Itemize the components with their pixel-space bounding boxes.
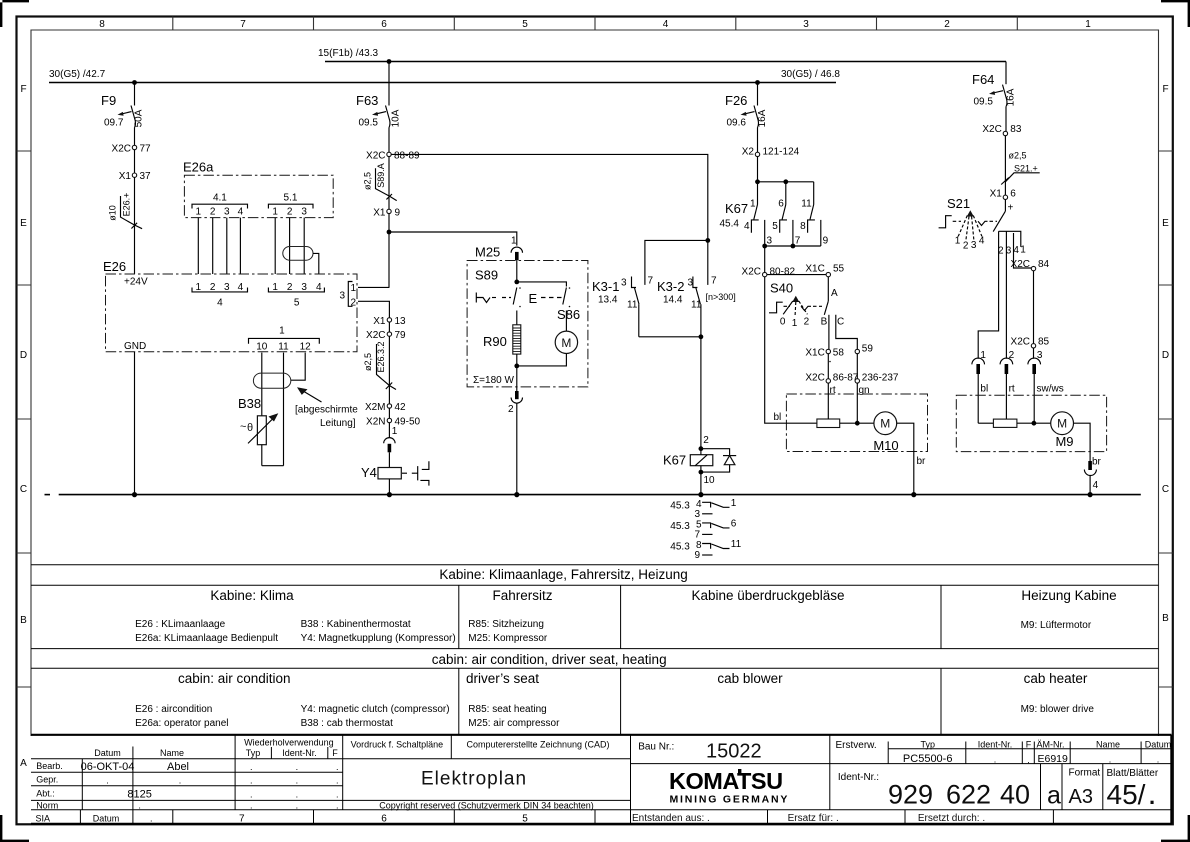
svg-text:8: 8 bbox=[800, 221, 806, 232]
svg-text:85: 85 bbox=[1038, 336, 1050, 347]
svg-text:7: 7 bbox=[648, 276, 654, 287]
wire to E26 +24V bbox=[134, 177, 136, 274]
svg-text:C: C bbox=[20, 484, 27, 495]
terminal X1 6 bbox=[990, 189, 1017, 200]
svg-text:X2C: X2C bbox=[1011, 259, 1030, 270]
svg-text:[n>300]: [n>300] bbox=[706, 292, 736, 302]
wire pin12 bbox=[291, 353, 305, 381]
svg-text:X1: X1 bbox=[990, 189, 1003, 200]
svg-text:X2C: X2C bbox=[742, 267, 761, 278]
svg-text:40: 40 bbox=[1000, 780, 1030, 810]
svg-text:.: . bbox=[994, 755, 997, 765]
node F63 tap bbox=[387, 59, 392, 64]
svg-text:50A: 50A bbox=[134, 109, 145, 127]
M9 pin 2 bbox=[1000, 350, 1015, 419]
wire / nodes contact feeds bbox=[755, 157, 814, 185]
svg-text:rt: rt bbox=[1009, 384, 1015, 395]
svg-text:4: 4 bbox=[217, 298, 223, 309]
svg-text:X2: X2 bbox=[742, 147, 755, 158]
svg-text:6: 6 bbox=[381, 19, 387, 30]
svg-text:Abt.:: Abt.: bbox=[36, 789, 55, 799]
svg-text:K3-2: K3-2 bbox=[657, 279, 684, 294]
TABLES bbox=[31, 565, 1159, 735]
terminal X2C 86-87 bbox=[805, 354, 858, 384]
svg-text:Datum: Datum bbox=[94, 748, 121, 758]
wire bl M10 bbox=[765, 277, 817, 423]
K67 contact cross-ref 8-11 bbox=[670, 539, 741, 561]
svg-text:13.4: 13.4 bbox=[598, 295, 618, 306]
svg-text:09.6: 09.6 bbox=[727, 118, 747, 129]
relay contact K3-2 bbox=[657, 276, 736, 337]
wire bbox=[1033, 271, 1035, 344]
svg-text:A: A bbox=[831, 288, 838, 299]
relay contact K3-1 bbox=[592, 276, 654, 337]
svg-text:F: F bbox=[1026, 739, 1032, 749]
svg-text:Typ: Typ bbox=[920, 739, 935, 749]
svg-text:~: ~ bbox=[240, 421, 246, 433]
terminal X1C 58 bbox=[805, 348, 844, 363]
relay contact K67/1-4 bbox=[720, 182, 773, 247]
svg-text:Ident-Nr.: Ident-Nr. bbox=[282, 748, 317, 758]
svg-text:cab blower: cab blower bbox=[717, 671, 783, 686]
node F26 tap bbox=[755, 80, 760, 85]
wire to X1C 55 bbox=[767, 274, 826, 276]
svg-text:15022: 15022 bbox=[706, 741, 762, 763]
svg-text:45.4: 45.4 bbox=[720, 219, 740, 230]
svg-text:.: . bbox=[296, 776, 299, 786]
svg-text:Kabine: Klimaanlage, Fahrersit: Kabine: Klimaanlage, Fahrersitz, Heizung bbox=[439, 567, 687, 582]
svg-text:M9: blower drive: M9: blower drive bbox=[1021, 704, 1095, 715]
svg-text:Bau Nr.:: Bau Nr.: bbox=[638, 742, 674, 753]
svg-text:45.3: 45.3 bbox=[670, 542, 690, 553]
svg-text:Kabine: Klima: Kabine: Klima bbox=[210, 588, 294, 603]
terminal X1C 55 bbox=[805, 264, 844, 277]
svg-text:ÄM-Nr.: ÄM-Nr. bbox=[1037, 739, 1065, 749]
fuse F64 bbox=[972, 72, 1017, 131]
svg-text:Name: Name bbox=[160, 748, 184, 758]
svg-text:X2C: X2C bbox=[1011, 336, 1030, 347]
svg-text:42: 42 bbox=[395, 402, 407, 413]
wire / node X1-9 branch bbox=[387, 214, 517, 288]
terminal X1 37 bbox=[119, 171, 151, 182]
svg-text:M9: M9 bbox=[1055, 434, 1073, 449]
svg-text:.: . bbox=[296, 762, 299, 772]
svg-text:3: 3 bbox=[971, 240, 977, 251]
svg-text:ø10: ø10 bbox=[108, 205, 118, 221]
terminal X1 9 bbox=[373, 208, 400, 219]
connector 5 bbox=[268, 282, 324, 309]
K67 contact cross-ref 5-6 bbox=[670, 519, 737, 541]
svg-text:1: 1 bbox=[1020, 245, 1026, 256]
switch S86 bbox=[529, 287, 581, 331]
svg-text:E6919: E6919 bbox=[1038, 753, 1069, 765]
wire bbox=[1004, 136, 1006, 195]
svg-text:09.7: 09.7 bbox=[104, 118, 124, 129]
svg-text:E: E bbox=[529, 291, 538, 306]
svg-text:sw/ws: sw/ws bbox=[1037, 384, 1064, 395]
svg-text:9: 9 bbox=[395, 208, 401, 219]
wire conn3 pin1 bbox=[358, 286, 389, 288]
svg-text:4: 4 bbox=[744, 221, 750, 232]
svg-text:M25: air compressor: M25: air compressor bbox=[468, 718, 560, 729]
svg-text:Elektroplan: Elektroplan bbox=[421, 769, 527, 790]
ruler top ticks bbox=[173, 17, 1018, 31]
svg-text:3: 3 bbox=[224, 282, 230, 293]
svg-text:7: 7 bbox=[695, 530, 701, 541]
svg-text:8: 8 bbox=[99, 19, 105, 30]
svg-text:16A: 16A bbox=[757, 109, 768, 127]
svg-text:X2M: X2M bbox=[365, 402, 386, 413]
svg-text:3: 3 bbox=[803, 19, 809, 30]
svg-text:45/: 45/ bbox=[1107, 779, 1146, 810]
svg-text:S89: S89 bbox=[475, 268, 498, 283]
svg-text:Kabine überdruckgebläse: Kabine überdruckgebläse bbox=[691, 588, 844, 603]
M25 pin2 bbox=[508, 366, 523, 495]
svg-text:7: 7 bbox=[240, 19, 246, 30]
wire gauge marker S89.A bbox=[363, 163, 397, 200]
svg-text:.: . bbox=[336, 790, 339, 800]
connector 3 bbox=[339, 282, 356, 309]
wire 15 bus drop to F64 bbox=[1005, 62, 1007, 85]
svg-text:F63: F63 bbox=[356, 93, 378, 108]
svg-text:5.1: 5.1 bbox=[284, 193, 298, 204]
svg-text:6: 6 bbox=[778, 199, 784, 210]
svg-text:2: 2 bbox=[963, 241, 969, 252]
svg-text:X2C: X2C bbox=[982, 124, 1001, 135]
svg-text:3: 3 bbox=[621, 278, 627, 289]
node F9 tap bbox=[132, 80, 137, 85]
svg-text:B: B bbox=[1162, 613, 1169, 624]
svg-text:+: + bbox=[1008, 203, 1014, 214]
svg-text:2: 2 bbox=[210, 282, 216, 293]
svg-text:3: 3 bbox=[301, 207, 307, 218]
svg-text:E26 : aircondition: E26 : aircondition bbox=[135, 704, 212, 715]
terminal X2C 80-82 bbox=[742, 267, 796, 278]
svg-text:M10: M10 bbox=[873, 438, 898, 453]
svg-text:B38: B38 bbox=[238, 396, 261, 411]
svg-text:D: D bbox=[1162, 350, 1169, 361]
svg-text:3: 3 bbox=[301, 282, 307, 293]
svg-text:1: 1 bbox=[1085, 19, 1091, 30]
svg-text:59: 59 bbox=[862, 344, 874, 355]
svg-text:R85: seat heating: R85: seat heating bbox=[468, 704, 546, 715]
M25 assembly box bbox=[467, 261, 588, 387]
wires 5.1 to 5 bbox=[275, 218, 304, 274]
svg-text:80-82: 80-82 bbox=[770, 267, 796, 278]
svg-text:.: . bbox=[106, 776, 109, 786]
S40 contact A-B bbox=[821, 277, 838, 350]
svg-text:MINING GERMANY: MINING GERMANY bbox=[670, 794, 790, 806]
svg-text:.: . bbox=[150, 813, 153, 823]
svg-text:11: 11 bbox=[627, 300, 638, 311]
svg-text:Datum: Datum bbox=[1145, 739, 1172, 749]
terminal 59 bbox=[855, 344, 873, 355]
wire colours M9 bbox=[980, 384, 1063, 395]
svg-text:.: . bbox=[336, 800, 339, 810]
svg-text:.: . bbox=[250, 790, 253, 800]
svg-text:0: 0 bbox=[780, 317, 786, 328]
ground nodes bbox=[132, 492, 1093, 497]
svg-text:12: 12 bbox=[300, 342, 312, 353]
svg-text:.: . bbox=[296, 790, 299, 800]
svg-text:4: 4 bbox=[1093, 480, 1099, 491]
wire pin11 bbox=[283, 353, 285, 466]
svg-text:X2C: X2C bbox=[366, 330, 385, 341]
crop marks bbox=[0, 0, 29, 27]
svg-text:S89.A: S89.A bbox=[376, 163, 386, 188]
svg-text:Datum: Datum bbox=[93, 813, 120, 823]
wire bus 15(F1b) bbox=[318, 48, 1006, 62]
svg-text:Leitung]: Leitung] bbox=[320, 418, 356, 429]
wire gauge marker E26.3.2 bbox=[363, 341, 396, 389]
svg-text:.: . bbox=[336, 762, 339, 772]
svg-text:84: 84 bbox=[1038, 259, 1050, 270]
svg-text:77: 77 bbox=[140, 144, 152, 155]
svg-text:.: . bbox=[250, 800, 253, 810]
svg-text:M: M bbox=[561, 336, 571, 350]
svg-text:K3-1: K3-1 bbox=[592, 279, 619, 294]
svg-text:M: M bbox=[1057, 417, 1067, 431]
svg-text:C: C bbox=[837, 317, 844, 328]
node K3 feed bbox=[705, 238, 710, 243]
svg-text:Ident-Nr.:: Ident-Nr.: bbox=[838, 772, 879, 783]
svg-text:3: 3 bbox=[224, 207, 230, 218]
svg-text:4: 4 bbox=[1013, 245, 1019, 256]
connector 5.1 bbox=[268, 193, 313, 218]
svg-text:S40: S40 bbox=[770, 281, 793, 296]
svg-text:M25: M25 bbox=[475, 245, 500, 260]
terminal 236-237 bbox=[855, 354, 899, 384]
svg-text:E26 : KLimaanlaage: E26 : KLimaanlaage bbox=[135, 619, 226, 630]
svg-text:9: 9 bbox=[823, 236, 829, 247]
svg-text:F9: F9 bbox=[101, 93, 116, 108]
M9 pin 1 bbox=[972, 350, 987, 423]
svg-text:X1: X1 bbox=[373, 208, 386, 219]
airconditioner E26 box bbox=[103, 259, 357, 352]
svg-text:Heizung Kabine: Heizung Kabine bbox=[1021, 588, 1116, 603]
TITLEBLOCK bbox=[31, 735, 1171, 825]
svg-text:Name: Name bbox=[1096, 739, 1120, 749]
svg-text:S86: S86 bbox=[557, 307, 580, 322]
wires 4.1 to 4 bbox=[198, 218, 240, 274]
thermostat B38 bbox=[238, 396, 284, 466]
svg-text:1: 1 bbox=[196, 207, 202, 218]
svg-text:16A: 16A bbox=[1006, 88, 1017, 106]
svg-text:F: F bbox=[1162, 84, 1168, 95]
svg-text:F64: F64 bbox=[972, 72, 994, 87]
svg-text:06-OKT-04: 06-OKT-04 bbox=[81, 761, 135, 773]
svg-text:6: 6 bbox=[731, 519, 737, 530]
svg-text:.: . bbox=[1149, 784, 1155, 809]
fuse F9 bbox=[101, 83, 145, 146]
svg-text:2: 2 bbox=[287, 282, 293, 293]
terminal X1 13 bbox=[373, 316, 406, 327]
blower assembly M10 box bbox=[786, 394, 927, 452]
heater resistor R90 bbox=[483, 325, 521, 366]
svg-text:45.3: 45.3 bbox=[670, 521, 690, 532]
terminal X2C 83 bbox=[982, 124, 1022, 136]
svg-text:A: A bbox=[20, 758, 27, 769]
svg-text:4: 4 bbox=[238, 282, 244, 293]
terminal X2C 85 bbox=[1011, 336, 1050, 348]
fuse F26 bbox=[725, 83, 768, 153]
svg-text:Abel: Abel bbox=[167, 761, 189, 773]
svg-text:Copyright reserved (Schutzverm: Copyright reserved (Schutzvermerk DIN 34… bbox=[379, 801, 594, 811]
svg-text:3: 3 bbox=[767, 236, 773, 247]
svg-text:1: 1 bbox=[351, 283, 357, 294]
svg-text:X1: X1 bbox=[119, 171, 132, 182]
svg-text:E26: E26 bbox=[103, 259, 126, 274]
svg-text:11: 11 bbox=[731, 539, 742, 550]
svg-text:83: 83 bbox=[1010, 124, 1022, 135]
svg-text:F: F bbox=[332, 748, 338, 758]
wire collector / nodes bbox=[762, 244, 821, 273]
svg-text:E26.3.2: E26.3.2 bbox=[376, 341, 386, 372]
svg-text:SIA: SIA bbox=[36, 813, 51, 823]
ground bus bbox=[45, 494, 1141, 496]
svg-text:Norm: Norm bbox=[36, 800, 58, 810]
svg-text:cab heater: cab heater bbox=[1024, 671, 1088, 686]
wire GND drop bbox=[134, 352, 136, 495]
heater switch S21 bbox=[939, 196, 1014, 252]
heater fan motor M9 bbox=[1051, 412, 1074, 449]
svg-text:R90: R90 bbox=[483, 334, 507, 349]
svg-text:.: . bbox=[1157, 755, 1160, 765]
K67 contact cross-ref 4-1 bbox=[670, 498, 737, 520]
svg-text:B: B bbox=[20, 615, 27, 626]
svg-text:1: 1 bbox=[279, 326, 285, 337]
svg-text:929: 929 bbox=[888, 780, 933, 810]
pin 1 shield sleeve Y4 bbox=[384, 423, 398, 468]
wire K3-2 feed bbox=[707, 240, 709, 285]
svg-text:bl: bl bbox=[980, 384, 988, 395]
wire K3 outputs / node bbox=[639, 334, 710, 448]
svg-text:Σ=180 W: Σ=180 W bbox=[473, 375, 514, 386]
svg-text:A3: A3 bbox=[1069, 786, 1093, 808]
svg-text:1: 1 bbox=[731, 498, 737, 509]
thermal switch S89 bbox=[475, 268, 521, 325]
suppressor diode K67 bbox=[701, 449, 736, 495]
svg-text:11: 11 bbox=[801, 199, 812, 210]
svg-text:1: 1 bbox=[792, 318, 798, 329]
wire X2C to K3 bbox=[391, 154, 708, 238]
svg-text:K67: K67 bbox=[725, 201, 748, 216]
svg-text:5: 5 bbox=[522, 19, 528, 30]
connector 4 bbox=[192, 282, 248, 309]
svg-text:M9: Lüftermotor: M9: Lüftermotor bbox=[1021, 620, 1092, 631]
svg-text:.: . bbox=[250, 776, 253, 786]
svg-text:15(F1b) /43.3: 15(F1b) /43.3 bbox=[318, 48, 378, 59]
svg-text:ø2,5: ø2,5 bbox=[363, 353, 373, 371]
svg-text:Format: Format bbox=[1069, 768, 1101, 779]
M9 pin 3 bbox=[1028, 348, 1043, 423]
svg-text:4: 4 bbox=[316, 282, 322, 293]
svg-text:ø2,5: ø2,5 bbox=[363, 172, 373, 190]
svg-text:B38 : cab thermostat: B38 : cab thermostat bbox=[301, 718, 393, 729]
wire bbox=[388, 157, 390, 210]
svg-text:Blatt/Blätter: Blatt/Blätter bbox=[1107, 768, 1159, 779]
svg-text:E26a: operator panel: E26a: operator panel bbox=[135, 718, 228, 729]
svg-text:7: 7 bbox=[239, 813, 245, 824]
connector 1 bbox=[249, 326, 320, 353]
svg-text:13: 13 bbox=[395, 316, 407, 327]
svg-text:X2N: X2N bbox=[366, 417, 385, 428]
svg-text:S21.+: S21.+ bbox=[1014, 164, 1038, 174]
terminal X2C 84 bbox=[1011, 259, 1050, 271]
series resistor M10 bbox=[817, 383, 840, 427]
svg-text:Entstanden aus: .: Entstanden aus: . bbox=[632, 813, 710, 824]
wire br M9 pin 4 bbox=[1074, 423, 1102, 494]
svg-text:E26a: E26a bbox=[183, 160, 214, 175]
svg-text:2: 2 bbox=[703, 435, 709, 446]
svg-text:6: 6 bbox=[381, 813, 387, 824]
svg-text:F: F bbox=[20, 84, 26, 95]
svg-text:2: 2 bbox=[944, 19, 950, 30]
svg-text:45.3: 45.3 bbox=[670, 501, 690, 512]
ruler side ticks bbox=[17, 151, 32, 687]
svg-text:7: 7 bbox=[711, 276, 717, 287]
svg-text:X2C: X2C bbox=[805, 373, 824, 384]
svg-text:.: . bbox=[296, 800, 299, 810]
svg-text:4: 4 bbox=[663, 19, 669, 30]
relay coil K67 bbox=[663, 446, 713, 474]
svg-text:1: 1 bbox=[955, 236, 961, 247]
svg-text:.: . bbox=[336, 776, 339, 786]
svg-text:1: 1 bbox=[511, 236, 517, 247]
svg-text:M25: Kompressor: M25: Kompressor bbox=[468, 633, 548, 644]
svg-text:E: E bbox=[1162, 218, 1169, 229]
svg-text:09.5: 09.5 bbox=[974, 97, 994, 108]
svg-text:6: 6 bbox=[1010, 189, 1016, 200]
svg-text:2: 2 bbox=[287, 207, 293, 218]
svg-text:B38 : Kabinenthermostat: B38 : Kabinenthermostat bbox=[301, 619, 411, 630]
node R90 bottom bbox=[514, 364, 519, 369]
wire br M10 bbox=[897, 423, 926, 494]
wire bus 30(G5) bbox=[49, 69, 840, 83]
svg-text:M: M bbox=[880, 417, 890, 431]
svg-text:3: 3 bbox=[695, 509, 701, 520]
svg-text:Y4: Y4 bbox=[361, 465, 377, 480]
wire gauge marker S21.+ bbox=[1001, 151, 1039, 185]
heater assembly M9 box bbox=[956, 395, 1106, 451]
svg-text:49-50: 49-50 bbox=[395, 417, 421, 428]
svg-text:1: 1 bbox=[196, 282, 202, 293]
svg-text:2: 2 bbox=[804, 317, 810, 328]
svg-text:br: br bbox=[917, 456, 927, 467]
terminal X2C 79 bbox=[366, 322, 406, 341]
fuse F63 bbox=[356, 62, 402, 153]
svg-text:2: 2 bbox=[351, 298, 357, 309]
svg-text:10: 10 bbox=[704, 475, 716, 486]
svg-text:GND: GND bbox=[124, 341, 146, 352]
svg-text:Ersatz für: .: Ersatz für: . bbox=[788, 813, 839, 824]
svg-text:1: 1 bbox=[272, 282, 278, 293]
svg-text:E: E bbox=[20, 218, 27, 229]
svg-text:K67: K67 bbox=[663, 453, 686, 468]
svg-text:E26.+: E26.+ bbox=[122, 193, 132, 217]
series resistor M9 bbox=[978, 419, 1017, 427]
svg-text:30(G5) / 46.8: 30(G5) / 46.8 bbox=[781, 69, 840, 80]
compressor M25 pin1 bbox=[475, 236, 523, 282]
svg-text:KOMATSU: KOMATSU bbox=[669, 768, 783, 794]
svg-text:11: 11 bbox=[278, 342, 289, 353]
svg-text:Gepr.: Gepr. bbox=[36, 775, 58, 785]
svg-text:+24V: +24V bbox=[124, 277, 148, 288]
svg-text:88-89: 88-89 bbox=[394, 151, 420, 162]
svg-text:1: 1 bbox=[272, 207, 278, 218]
svg-text:236-237: 236-237 bbox=[862, 373, 899, 384]
label abgeschirmte Leitung bbox=[295, 387, 358, 429]
